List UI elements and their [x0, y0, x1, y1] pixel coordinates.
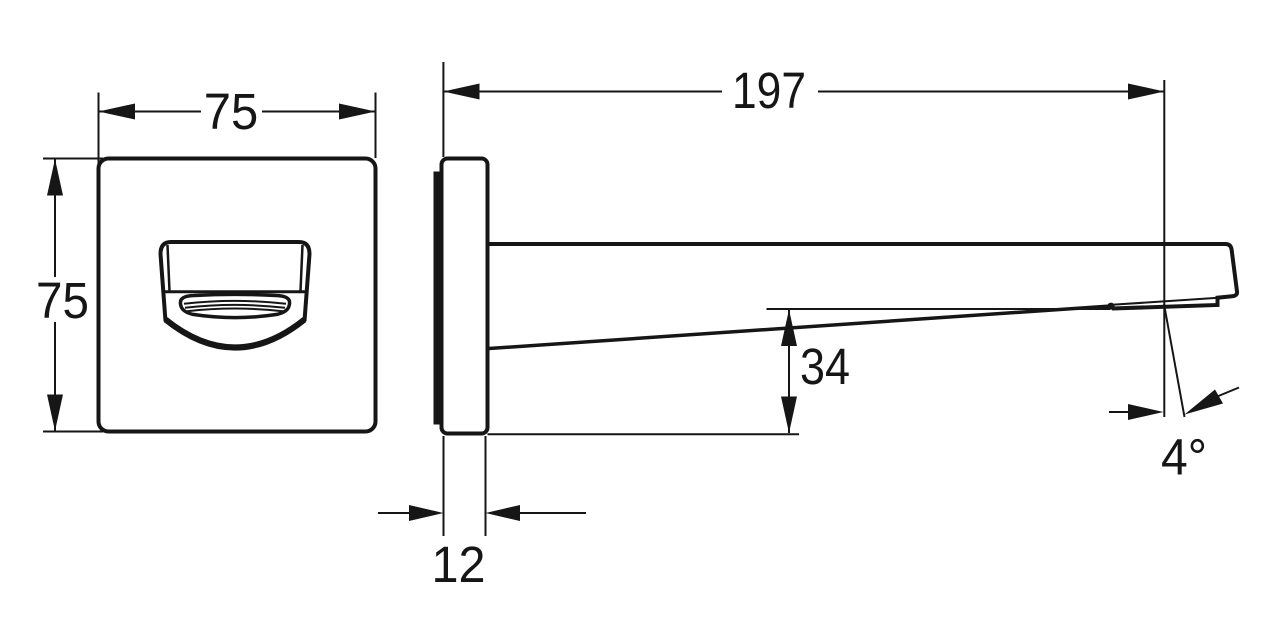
dimension 75 left: bottom arrowhead: [47, 395, 63, 432]
side view: gasket thick bar: [434, 172, 443, 425]
svg-text:75: 75: [36, 272, 89, 329]
dimension 75 top: right extension line: [375, 93, 377, 159]
dimension 34: outlet extension line: [767, 308, 1111, 310]
front view: aerator ring line 3: [187, 309, 283, 312]
front view: aerator dish outline: [180, 294, 289, 317]
dimension 12: right tail line: [519, 512, 586, 514]
dimension 197: left arrowhead: [443, 84, 479, 100]
svg-text:4°: 4°: [1161, 429, 1207, 486]
front view: inner right edge line: [301, 245, 303, 291]
front view: wall plate square: [99, 159, 376, 432]
dimension 4 deg: slanted reference line: [1164, 304, 1185, 417]
dimension 12: right extension line: [485, 436, 487, 536]
front view: spout bottom thick arc: [166, 320, 305, 348]
dimension 4 deg: left arrowhead: [1128, 404, 1164, 420]
front view: spout outer body: [161, 242, 310, 321]
dimension 75 left: line bottom segment: [54, 322, 56, 432]
dimension 75 left: top extension line: [43, 158, 103, 160]
side view: plate bottom reference line: [488, 433, 800, 435]
dimension 75 top: line left segment: [99, 111, 202, 113]
dimension 75 top: right arrowhead: [339, 104, 376, 120]
dimension 34: vertical line: [788, 310, 790, 434]
dimension 197: line left segment: [443, 91, 722, 93]
front view: inner left edge line: [168, 245, 170, 291]
svg-text:34: 34: [800, 338, 850, 395]
dimension 34: bottom arrowhead: [781, 397, 797, 434]
dimension 4 deg: left tail line: [1109, 411, 1130, 413]
dimension 12: left arrowhead: [409, 505, 444, 521]
svg-text:75: 75: [204, 83, 259, 140]
side view: spout top and tip outline: [488, 244, 1238, 309]
front view: horizontal separation line: [164, 290, 307, 293]
dimension 75 left: bottom extension line: [43, 431, 103, 433]
dimension 4 deg: right tail line: [1216, 388, 1239, 398]
front view: aerator ring line 2: [185, 305, 285, 308]
svg-text:12: 12: [432, 536, 486, 593]
dimension 197: left extension line: [442, 62, 444, 157]
svg-text:197: 197: [732, 62, 806, 119]
side view: wall plate: [442, 159, 488, 434]
side view: tip underside thin lip line: [1112, 298, 1217, 305]
dimension 197: line right segment: [818, 91, 1164, 93]
dimension 75 left: top arrowhead: [47, 159, 63, 196]
side view: underside junction bump: [1107, 303, 1114, 310]
dimension 12: right arrowhead: [486, 505, 521, 521]
dimension 34: top arrowhead: [781, 310, 797, 347]
dimension 75 top: line right segment: [262, 111, 376, 113]
dimension 12: left extension line: [443, 436, 445, 536]
front view: aerator ring line 1: [184, 301, 286, 304]
side view: spout underside main line: [489, 306, 1111, 349]
dimension 197: right extension line: [1163, 80, 1165, 417]
dimension 75 left: line top segment: [54, 159, 56, 278]
dimension 75 top: left extension line: [98, 93, 100, 165]
dimension 75 top: left arrowhead: [99, 104, 136, 120]
dimension 197: right arrowhead: [1128, 84, 1164, 100]
dimension 4 deg: right arrowhead: [1185, 390, 1224, 415]
dimension 12: left tail line: [378, 512, 410, 514]
